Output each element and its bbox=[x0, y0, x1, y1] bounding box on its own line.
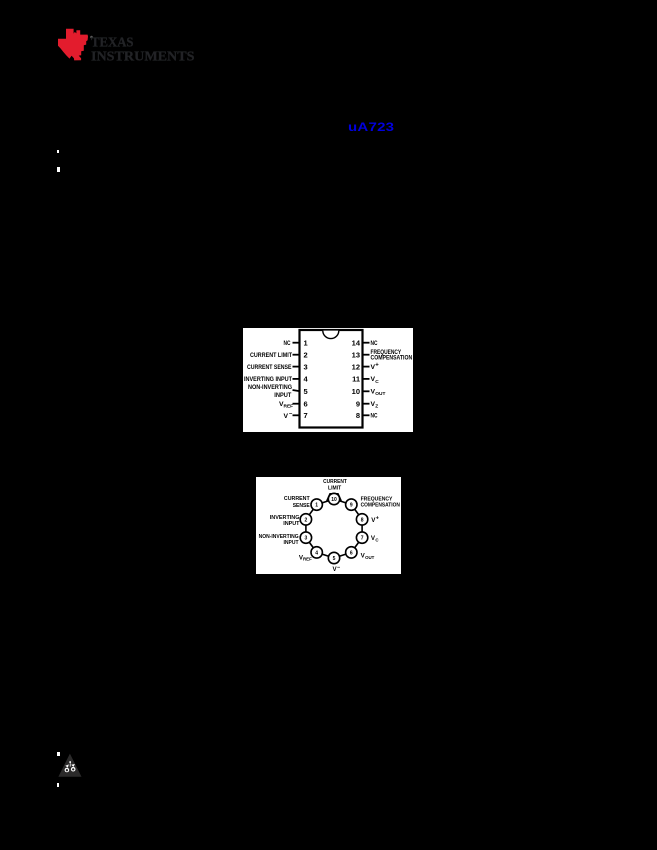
blue hyperlink uA723 bbox=[348, 120, 394, 134]
svg-text:5: 5 bbox=[304, 387, 308, 396]
svg-text:TEXAS: TEXAS bbox=[91, 35, 134, 50]
svg-text:COMPENSATION: COMPENSATION bbox=[361, 502, 400, 508]
svg-text:14: 14 bbox=[352, 338, 361, 347]
ring wire 6-5 bbox=[334, 552, 351, 558]
pin 11 stub bbox=[362, 377, 370, 379]
index tab at pin 10 bbox=[326, 493, 342, 501]
pin 10 stub bbox=[362, 390, 370, 392]
svg-text:CURRENT: CURRENT bbox=[284, 496, 310, 502]
pin 9 stub bbox=[362, 402, 370, 404]
pin 5 circle bbox=[328, 552, 339, 563]
pin 6 circle bbox=[346, 547, 357, 558]
svg-text:INPUT: INPUT bbox=[284, 540, 299, 546]
TI logo (red Texas map + wordmark) bbox=[0, 0, 220, 80]
pin 6 stub bbox=[293, 402, 301, 404]
pin 14 stub bbox=[362, 341, 370, 343]
svg-text:LIMIT: LIMIT bbox=[328, 485, 341, 491]
svg-text:NC: NC bbox=[371, 412, 378, 419]
svg-text:7: 7 bbox=[304, 411, 308, 420]
svg-text:11: 11 bbox=[352, 374, 360, 383]
ring wire 9-8 bbox=[351, 505, 362, 520]
svg-text:Z: Z bbox=[375, 403, 378, 409]
svg-text:INPUT: INPUT bbox=[274, 391, 291, 398]
svg-text:INVERTING INPUT: INVERTING INPUT bbox=[244, 376, 292, 383]
pin 9 circle bbox=[346, 499, 357, 510]
svg-text:2: 2 bbox=[304, 350, 308, 359]
ring wire 10-9 bbox=[334, 499, 351, 505]
trademark dot bbox=[90, 36, 93, 39]
scales left pan bbox=[65, 764, 69, 767]
ring wire 1-10 bbox=[317, 499, 334, 505]
pin 3 stub bbox=[293, 365, 301, 367]
triangle bbox=[58, 754, 81, 777]
svg-text:9: 9 bbox=[356, 399, 360, 408]
pin 13 stub bbox=[362, 353, 370, 355]
svg-text:+: + bbox=[376, 516, 379, 522]
ring wire 7-6 bbox=[351, 538, 362, 553]
svg-text:NC: NC bbox=[284, 340, 291, 347]
pin 2 circle bbox=[300, 514, 311, 525]
pin 7 stub bbox=[293, 414, 301, 416]
pin 3 circle bbox=[300, 532, 311, 543]
scales top knob bbox=[69, 761, 71, 763]
bullet tick 1 bbox=[57, 150, 59, 153]
ring wire 4-3 bbox=[306, 538, 317, 553]
ring wire 2-1 bbox=[306, 505, 317, 520]
pin 1 circle bbox=[311, 499, 322, 510]
diagram: 14-pin DIP package pinout (white panel) bbox=[243, 328, 413, 432]
svg-text:10: 10 bbox=[331, 497, 337, 503]
pin 5 stub bbox=[293, 390, 301, 391]
pin 8 stub bbox=[362, 414, 370, 416]
svg-text:SENSE: SENSE bbox=[293, 503, 310, 509]
svg-text:V: V bbox=[283, 413, 288, 420]
svg-text:9: 9 bbox=[350, 503, 353, 509]
svg-text:6: 6 bbox=[304, 399, 308, 408]
svg-text:12: 12 bbox=[352, 362, 360, 371]
svg-text:CURRENT SENSE: CURRENT SENSE bbox=[247, 363, 292, 370]
bullet tick 2 bbox=[57, 167, 60, 172]
svg-text:8: 8 bbox=[356, 411, 360, 420]
svg-text:INPUT: INPUT bbox=[283, 521, 300, 527]
svg-text:NON-INVERTING: NON-INVERTING bbox=[259, 534, 299, 540]
svg-text:6: 6 bbox=[350, 550, 353, 556]
svg-text:+: + bbox=[375, 362, 379, 368]
pin 8 circle bbox=[356, 514, 367, 525]
pin 4 circle bbox=[311, 547, 322, 558]
ring wire 3-2 bbox=[305, 519, 307, 537]
DIP body U1 bbox=[300, 330, 363, 428]
svg-text:5: 5 bbox=[333, 556, 336, 562]
ring wire 8-7 bbox=[361, 519, 363, 537]
svg-text:3: 3 bbox=[304, 362, 308, 371]
svg-text:7: 7 bbox=[361, 536, 364, 542]
white square mark near triangle bbox=[57, 752, 60, 756]
pin 2 stub bbox=[293, 353, 301, 355]
Texas map red icon bbox=[58, 29, 88, 61]
pin 10 circle bbox=[328, 493, 339, 504]
svg-text:1: 1 bbox=[315, 503, 318, 509]
svg-text:C: C bbox=[375, 378, 379, 384]
svg-text:REF: REF bbox=[284, 403, 294, 409]
scales right pan bbox=[71, 764, 75, 767]
scales post bbox=[69, 763, 72, 766]
pin 1 stub bbox=[293, 341, 301, 343]
svg-text:10: 10 bbox=[352, 387, 360, 396]
svg-text:CURRENT LIMIT: CURRENT LIMIT bbox=[250, 352, 292, 359]
svg-text:8: 8 bbox=[361, 517, 364, 523]
svg-text:C: C bbox=[375, 537, 379, 542]
white mark below triangle bbox=[57, 783, 59, 787]
svg-text:13: 13 bbox=[352, 350, 360, 359]
svg-text:OUT: OUT bbox=[375, 391, 385, 397]
pin 4 stub bbox=[293, 377, 301, 379]
svg-text:3: 3 bbox=[305, 536, 308, 542]
svg-text:4: 4 bbox=[315, 550, 318, 556]
svg-text:2: 2 bbox=[305, 517, 308, 523]
svg-text:NON-INVERTING: NON-INVERTING bbox=[248, 384, 292, 391]
svg-text:−: − bbox=[289, 411, 293, 417]
svg-text:1: 1 bbox=[304, 338, 308, 347]
legal notice triangle icon with scales bbox=[54, 748, 88, 782]
pin 7 circle bbox=[356, 532, 367, 543]
svg-text:COMPENSATION: COMPENSATION bbox=[371, 354, 413, 361]
svg-text:OUT: OUT bbox=[365, 555, 375, 560]
svg-text:−: − bbox=[337, 565, 340, 571]
index notch bbox=[323, 330, 339, 338]
svg-text:REF: REF bbox=[303, 557, 312, 562]
svg-text:NC: NC bbox=[371, 340, 378, 347]
diagram: 10-pin metal-can (TO-100) package pinout (white panel) bbox=[256, 477, 401, 574]
ring wire 5-4 bbox=[317, 552, 334, 558]
svg-text:INSTRUMENTS: INSTRUMENTS bbox=[91, 50, 195, 65]
svg-text:CURRENT: CURRENT bbox=[323, 479, 347, 485]
pin 12 stub bbox=[362, 365, 370, 367]
